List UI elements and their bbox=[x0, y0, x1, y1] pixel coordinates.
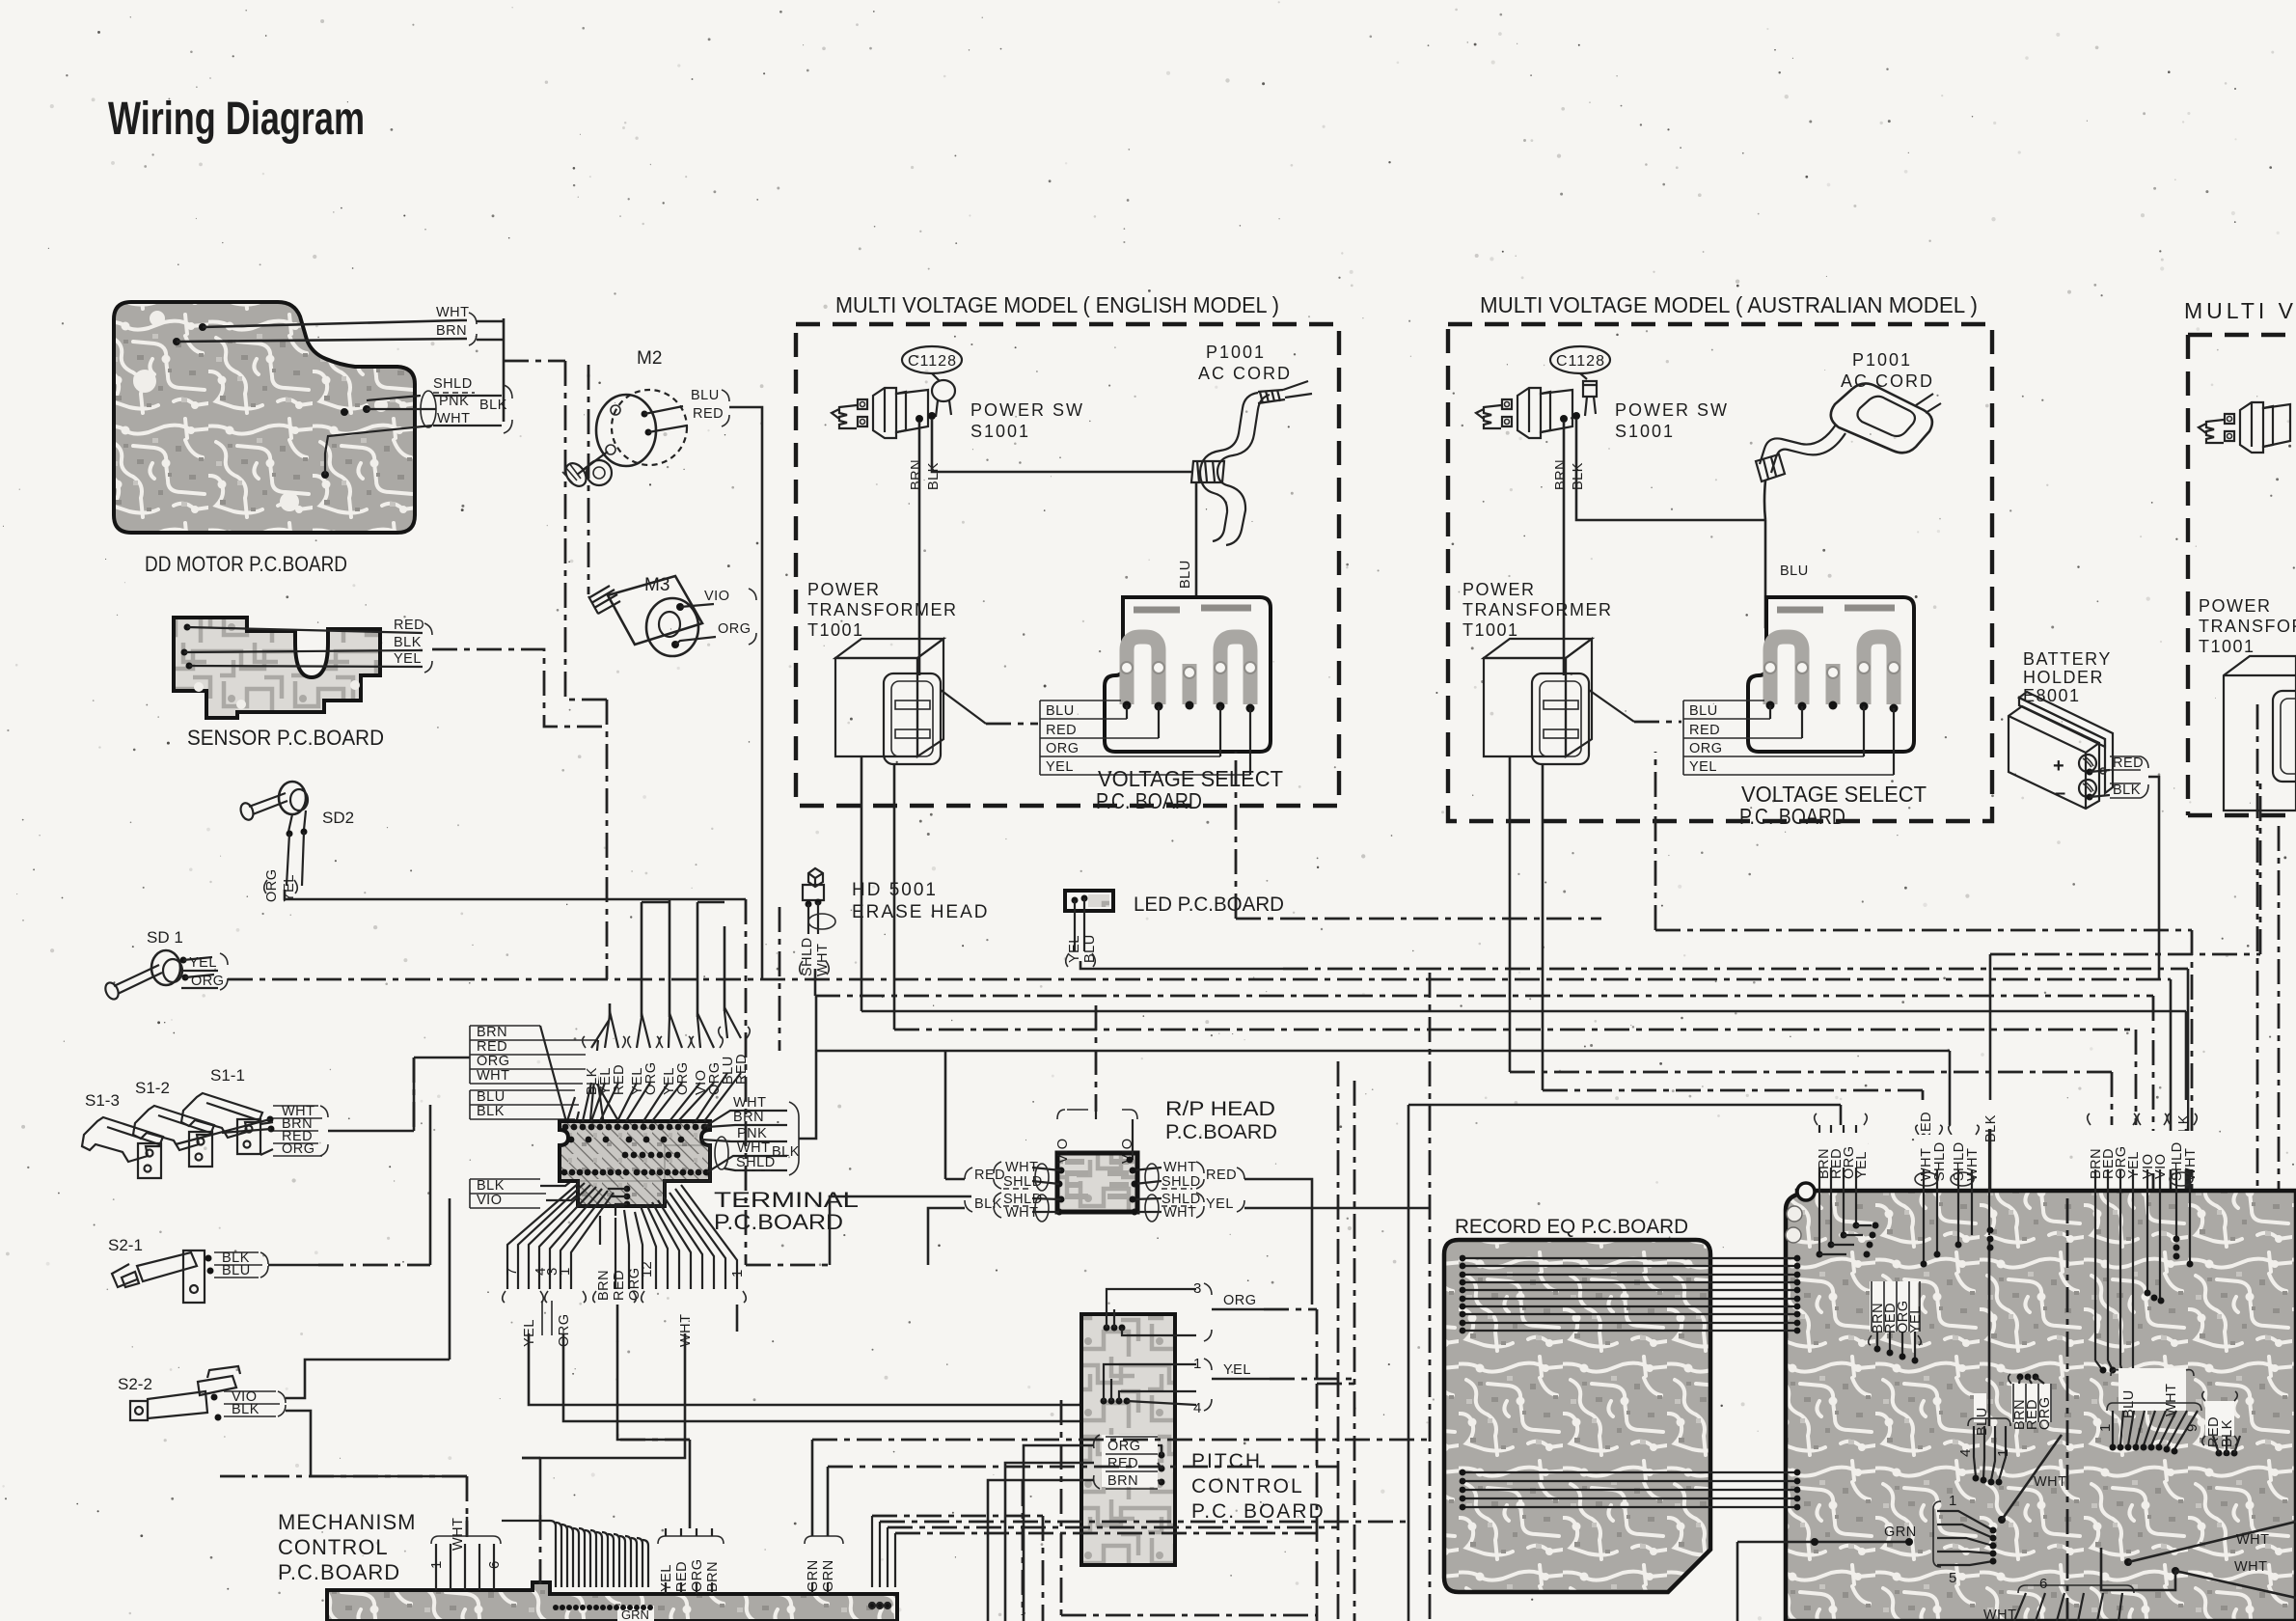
svg-text:RED: RED bbox=[1107, 1456, 1138, 1471]
svg-text:BLK: BLK bbox=[2113, 783, 2141, 798]
DD MOTOR P.C.BOARD bbox=[114, 302, 415, 533]
svg-text:SD2: SD2 bbox=[322, 809, 354, 827]
svg-text:DD MOTOR P.C.BOARD: DD MOTOR P.C.BOARD bbox=[145, 552, 347, 576]
svg-text:ORG: ORG bbox=[1046, 741, 1080, 756]
svg-text:BLK: BLK bbox=[232, 1402, 260, 1417]
svg-text:BRN: BRN bbox=[596, 1270, 612, 1301]
svg-text:RED: RED bbox=[1046, 723, 1077, 738]
svg-text:+: + bbox=[2053, 756, 2064, 777]
svg-text:P.C.BOARD: P.C.BOARD bbox=[278, 1560, 400, 1584]
record EQ wire rows bottom group bbox=[1460, 1470, 1801, 1511]
R/P head right labels bbox=[1130, 1160, 1431, 1305]
svg-text:ORG: ORG bbox=[477, 1054, 510, 1069]
wire band y1032 from erase head bbox=[815, 996, 2153, 1198]
bundle of wires into mechanism board bbox=[502, 1521, 648, 1587]
svg-text:6: 6 bbox=[486, 1561, 503, 1569]
vertical wire labels above terminal bbox=[586, 1041, 748, 1084]
svg-text:MULTI VOLTAGE MODEL ( ENGLI: MULTI VOLTAGE MODEL ( ENGLISH MODEL ) bbox=[835, 292, 1279, 317]
VOLTAGE SELECT P.C. BOARD (Australian) bbox=[1748, 597, 1914, 752]
svg-text:BLU: BLU bbox=[691, 388, 720, 403]
svg-text:BLU: BLU bbox=[222, 1263, 251, 1278]
svg-text:ORG: ORG bbox=[675, 1061, 691, 1095]
svg-text:MULTI VO: MULTI VO bbox=[2184, 298, 2296, 323]
SD2 switch bbox=[238, 782, 746, 902]
svg-text:POWER SW: POWER SW bbox=[1615, 400, 1729, 420]
vertical x2063 heavy bbox=[1989, 954, 1992, 1238]
TERMINAL P.C.BOARD bbox=[560, 1121, 710, 1206]
DD board wire BRN bbox=[173, 323, 467, 345]
BRN RED ORG label box on main board bbox=[2009, 1374, 2053, 1431]
svg-text:S1-1: S1-1 bbox=[210, 1066, 245, 1085]
BLU WHT label box and fan of 9 on main board bbox=[2097, 1368, 2201, 1455]
wires from pitch into mechanism right part bbox=[869, 1516, 895, 1608]
svg-text:BRN: BRN bbox=[1553, 459, 1569, 490]
svg-text:C1128: C1128 bbox=[1556, 353, 1605, 370]
svg-text:C1128: C1128 bbox=[908, 353, 957, 370]
svg-text:YEL: YEL bbox=[1046, 759, 1074, 775]
wire band y1130 bbox=[1543, 1090, 1923, 1125]
wire band y1089 terminal to group2 bbox=[816, 1051, 1950, 1125]
wire band y1111 australian transformer to group3 bbox=[1510, 1072, 2112, 1125]
dash-dot vertical through main board x2143 bbox=[2066, 1198, 2069, 1621]
R/P head left labels bbox=[928, 1051, 1065, 1265]
svg-text:WHT: WHT bbox=[1163, 1205, 1197, 1221]
svg-text:1: 1 bbox=[729, 1270, 746, 1278]
svg-text:T1001: T1001 bbox=[2199, 637, 2255, 656]
svg-text:RED: RED bbox=[974, 1168, 1005, 1183]
PITCH CONTROL P.C.BOARD bbox=[988, 1280, 1354, 1621]
S2-2 switch bbox=[118, 1198, 467, 1476]
label group1 BRN RED ORG YEL above main board bbox=[1813, 1113, 1879, 1258]
svg-text:BLU: BLU bbox=[1046, 703, 1075, 719]
svg-text:RED: RED bbox=[2113, 756, 2144, 771]
svg-text:P1001: P1001 bbox=[1852, 350, 1912, 370]
svg-text:WHT: WHT bbox=[733, 1095, 767, 1111]
svg-text:S2-2: S2-2 bbox=[118, 1375, 152, 1393]
svg-text:RED: RED bbox=[693, 406, 724, 422]
wire y952 english board bbox=[1236, 752, 1601, 919]
svg-text:BRN: BRN bbox=[477, 1025, 507, 1040]
main large P.C. board right bbox=[1786, 1183, 2296, 1621]
svg-text:S1001: S1001 bbox=[1615, 422, 1675, 441]
svg-text:T1001: T1001 bbox=[1462, 620, 1519, 640]
svg-text:BLK: BLK bbox=[926, 462, 942, 490]
svg-text:9: 9 bbox=[2184, 1424, 2200, 1432]
svg-text:BLK: BLK bbox=[477, 1104, 505, 1119]
elbow down from SD1 line bbox=[2170, 979, 2173, 1198]
svg-text:ORG: ORG bbox=[264, 868, 280, 902]
svg-text:E8001: E8001 bbox=[2023, 686, 2081, 705]
LED P.C.BOARD bbox=[1065, 891, 2188, 969]
svg-text:RECORD EQ P.C.BOARD: RECORD EQ P.C.BOARD bbox=[1455, 1216, 1688, 1238]
svg-text:POWER: POWER bbox=[2199, 596, 2272, 616]
label group3 BRN RED ORG YEL VIO VIO SHLD WHT above main board bbox=[2088, 1100, 2199, 1376]
svg-text:VIO: VIO bbox=[477, 1193, 502, 1208]
long horizontal wires lower area bbox=[214, 1440, 1430, 1621]
BRN RED ORG WHT ladder to terminal bbox=[470, 1025, 629, 1140]
svg-text:S1-3: S1-3 bbox=[85, 1091, 120, 1110]
svg-text:SHLD: SHLD bbox=[1162, 1174, 1201, 1190]
svg-text:VIO: VIO bbox=[704, 589, 729, 604]
svg-text:4: 4 bbox=[1193, 1400, 1201, 1416]
WHT bracket wires into mechanism board bbox=[428, 1517, 503, 1590]
svg-text:SENSOR P.C.BOARD: SENSOR P.C.BOARD bbox=[187, 726, 384, 750]
svg-text:3: 3 bbox=[1193, 1280, 1201, 1297]
svg-text:1: 1 bbox=[428, 1561, 445, 1569]
svg-text:ERASE HEAD: ERASE HEAD bbox=[852, 902, 989, 922]
vertical x773 bbox=[746, 899, 830, 1265]
MECHANISM CONTROL P.C.BOARD bbox=[278, 1510, 897, 1621]
svg-text:YEL: YEL bbox=[1854, 1151, 1870, 1179]
SD1 switch bbox=[103, 928, 2171, 1002]
svg-text:WHT: WHT bbox=[2034, 1474, 2067, 1490]
bottom fan labels 7 4 3 1 / BRN RED ORG / 12 / 1 bbox=[504, 1261, 746, 1301]
ellipse C1128 (English) bbox=[902, 346, 962, 417]
svg-text:BRN: BRN bbox=[733, 1110, 764, 1125]
GRN GRN labels into mechanism board bbox=[805, 1440, 843, 1594]
svg-text:WHT: WHT bbox=[737, 1140, 771, 1156]
svg-text:ORG: ORG bbox=[282, 1141, 315, 1157]
svg-text:WHT: WHT bbox=[437, 411, 471, 426]
svg-text:1: 1 bbox=[557, 1268, 573, 1276]
svg-text:AC CORD: AC CORD bbox=[1198, 364, 1292, 383]
power switch (third box) bbox=[2199, 402, 2290, 453]
svg-text:WHT: WHT bbox=[1983, 1607, 2017, 1621]
wire y989 right bbox=[1990, 777, 2260, 954]
R/P HEAD P.C.BOARD bbox=[1055, 1098, 1277, 1212]
svg-text:BRN: BRN bbox=[436, 323, 467, 339]
svg-text:TERMINAL: TERMINAL bbox=[714, 1188, 859, 1212]
svg-text:ORG: ORG bbox=[718, 621, 752, 637]
label group2 RED WHT SHLD / SHLD WHT BLK above main board bbox=[1915, 1100, 1999, 1268]
svg-text:7: 7 bbox=[504, 1268, 520, 1276]
motor M3 bbox=[588, 575, 756, 656]
wire band y1048 from english transformer bbox=[861, 1011, 2186, 1198]
svg-text:RED: RED bbox=[612, 1270, 627, 1301]
svg-text:1: 1 bbox=[1949, 1493, 1956, 1509]
svg-text:ORG: ORG bbox=[2037, 1396, 2053, 1430]
svg-text:PNK: PNK bbox=[737, 1126, 767, 1141]
svg-text:ORG: ORG bbox=[1223, 1293, 1257, 1308]
elbow down from LED line bbox=[2187, 969, 2190, 1198]
svg-text:P.C. BOARD: P.C. BOARD bbox=[1191, 1500, 1326, 1523]
svg-text:MECHANISM: MECHANISM bbox=[278, 1510, 416, 1534]
fan of 5 wires with bracket on main board bbox=[1933, 1493, 1997, 1586]
power switch S1001 (Australian) bbox=[1476, 388, 1580, 438]
vertical long wire x1482 bbox=[1429, 973, 1432, 1621]
dots on heavy vertical x2063 bbox=[1987, 1227, 1994, 1234]
WHT WHT diagonal wires bottom right bbox=[2101, 1522, 2296, 1598]
RED BLK labels right on main board bbox=[2202, 1391, 2240, 1457]
svg-text:–: – bbox=[2055, 783, 2065, 804]
vertical x860 to RP head labels bbox=[830, 1196, 971, 1265]
svg-text:POWER: POWER bbox=[807, 580, 881, 599]
svg-text:T1001: T1001 bbox=[807, 620, 864, 640]
terminal right labels WHT BRN PNK WHT SHLD bbox=[701, 996, 816, 1175]
svg-text:GRN: GRN bbox=[1884, 1525, 1917, 1540]
svg-text:RED: RED bbox=[1689, 723, 1720, 738]
svg-text:SHLD: SHLD bbox=[433, 376, 473, 392]
svg-text:WHT: WHT bbox=[1005, 1205, 1039, 1221]
svg-text:WHT: WHT bbox=[436, 305, 470, 320]
BATTERY HOLDER E8001 bbox=[2009, 649, 2159, 979]
svg-text:SHLD: SHLD bbox=[800, 937, 815, 976]
svg-text:WHT: WHT bbox=[451, 1517, 466, 1551]
svg-text:BLK: BLK bbox=[477, 1178, 505, 1194]
GRN wire on main board bbox=[1737, 1525, 1917, 1621]
bottom fan bracket marks bbox=[503, 1291, 747, 1303]
svg-text:BLK: BLK bbox=[1571, 462, 1586, 490]
svg-text:SD 1: SD 1 bbox=[147, 928, 183, 947]
vertical wires x1365 x1387 x1404 down bbox=[1317, 1061, 1354, 1621]
svg-text:POWER: POWER bbox=[1462, 580, 1536, 599]
POWER TRANSFORMER T1001 (English) bbox=[807, 580, 1038, 1030]
svg-text:BLK: BLK bbox=[479, 398, 507, 413]
svg-text:WHT: WHT bbox=[2236, 1532, 2270, 1548]
svg-text:MULTI VOLTAGE MODEL ( AUSTR: MULTI VOLTAGE MODEL ( AUSTRALIAN MODEL ) bbox=[1480, 292, 1978, 317]
svg-text:TRANSFORM: TRANSFORM bbox=[2199, 617, 2296, 636]
DD board wire WHT bbox=[199, 305, 470, 331]
vertical long wire x1136 from SD2-line down to R/P head bbox=[1095, 1005, 1098, 1112]
wire from DD junction to M2 area (dash-dot) bbox=[504, 361, 607, 979]
svg-text:BLK: BLK bbox=[1983, 1114, 1999, 1142]
power switch S1001 (English) bbox=[832, 388, 936, 438]
wire y964 from australian board bbox=[1655, 752, 2192, 1198]
svg-text:TRANSFORMER: TRANSFORMER bbox=[1462, 600, 1613, 619]
svg-text:P.C. BOARD: P.C. BOARD bbox=[1739, 804, 1845, 829]
svg-text:BLK: BLK bbox=[974, 1196, 1002, 1212]
svg-text:YEL: YEL bbox=[1067, 935, 1082, 963]
P1001 AC CORD (Australian) bbox=[1756, 350, 1941, 701]
dash vertical x429 S1 riser bbox=[413, 1058, 416, 1131]
SENSOR P.C.BOARD bbox=[174, 618, 380, 718]
BLU vertical label + fan of 4 on main board bbox=[1957, 1238, 2011, 1486]
svg-text:1: 1 bbox=[1193, 1356, 1201, 1372]
wire band y1067 bbox=[894, 1030, 2136, 1125]
DD board cable SHLD/PNK/WHT bbox=[321, 376, 512, 479]
svg-text:CONTROL: CONTROL bbox=[278, 1535, 389, 1559]
svg-text:S2-1: S2-1 bbox=[108, 1236, 143, 1254]
terminal pin rows bbox=[561, 1124, 710, 1208]
BLU BLK ladder to terminal bbox=[470, 1089, 579, 1140]
svg-text:SHLD: SHLD bbox=[736, 1155, 776, 1170]
BLU RED ORG YEL ladder (Australian) bbox=[1683, 701, 1894, 775]
svg-text:YEL: YEL bbox=[1689, 759, 1717, 775]
svg-text:RED: RED bbox=[477, 1039, 507, 1055]
svg-text:HOLDER: HOLDER bbox=[2023, 668, 2104, 687]
svg-text:YEL: YEL bbox=[1223, 1362, 1251, 1378]
svg-text:6: 6 bbox=[2039, 1576, 2047, 1592]
terminal bottom fan of wires bbox=[507, 1183, 737, 1289]
svg-text:ORG: ORG bbox=[1689, 741, 1723, 756]
HD5001 ERASE HEAD bbox=[800, 868, 990, 996]
wires continuing below terminal bbox=[529, 1305, 1130, 1515]
POWER TRANSFORM T1001 (third box) bbox=[2199, 596, 2296, 1191]
svg-text:BLU: BLU bbox=[1689, 703, 1718, 719]
svg-text:P.C.BOARD: P.C.BOARD bbox=[1165, 1121, 1277, 1143]
BRN BLK wires from switch (English) bbox=[909, 420, 1193, 675]
svg-text:Wiring Diagram: Wiring Diagram bbox=[108, 94, 365, 145]
svg-text:POWER SW: POWER SW bbox=[970, 400, 1084, 420]
svg-text:BRN: BRN bbox=[909, 459, 924, 490]
svg-text:WHT: WHT bbox=[477, 1068, 510, 1084]
svg-text:YEL: YEL bbox=[189, 955, 217, 971]
vertical dash-dot from M2/M3 region bbox=[588, 365, 590, 594]
BLU RED ORG YEL ladder (English) bbox=[1040, 701, 1250, 775]
svg-text:BATTERY: BATTERY bbox=[2023, 649, 2112, 669]
svg-text:BRN: BRN bbox=[1107, 1473, 1138, 1489]
P1001 AC CORD (English) bbox=[1178, 343, 1312, 701]
wires to mechanism area lower left bbox=[467, 1400, 1061, 1615]
svg-text:P.C. BOARD: P.C. BOARD bbox=[1096, 788, 1202, 813]
BRN BLK wires from switch (Australian) bbox=[1553, 420, 1765, 675]
YEL ORG labels below bbox=[522, 1301, 694, 1347]
svg-text:RED: RED bbox=[394, 618, 424, 633]
WHT diagonal wire on main board bbox=[1998, 1435, 2067, 1524]
svg-text:BLU: BLU bbox=[1780, 563, 1809, 579]
svg-text:BLK: BLK bbox=[772, 1144, 800, 1160]
wires inside main board from group1 area: BRN RED ORG YEL rotated labels on board bbox=[1869, 1281, 1924, 1364]
6 bracket fan at bottom of main board bbox=[1983, 1576, 2134, 1621]
S1-1 S1-2 S1-3 switches bbox=[82, 1058, 470, 1178]
svg-text:M2: M2 bbox=[637, 348, 662, 369]
svg-text:5: 5 bbox=[1949, 1570, 1956, 1586]
svg-text:LED P.C.BOARD: LED P.C.BOARD bbox=[1134, 893, 1284, 916]
BLK VIO ladder to terminal bbox=[470, 1166, 596, 1208]
POWER TRANSFORMER T1001 (Australian) bbox=[1462, 580, 1681, 1090]
long band wires (middle) bbox=[414, 622, 2260, 1621]
svg-text:12: 12 bbox=[639, 1261, 655, 1278]
svg-text:BLK: BLK bbox=[394, 635, 422, 650]
svg-text:BLU: BLU bbox=[477, 1089, 506, 1105]
record EQ wire rows top group bbox=[1460, 1255, 1801, 1334]
svg-text:WHT: WHT bbox=[1163, 1160, 1197, 1175]
svg-text:WHT: WHT bbox=[2234, 1559, 2268, 1575]
svg-text:4: 4 bbox=[1957, 1449, 1974, 1457]
svg-text:YEL: YEL bbox=[1908, 1305, 1924, 1333]
svg-text:YEL: YEL bbox=[1206, 1196, 1234, 1212]
YEL RED ORG BRN labels into mechanism board bbox=[658, 1440, 724, 1594]
svg-text:P.C.BOARD: P.C.BOARD bbox=[714, 1210, 843, 1234]
bracket marks above labels bbox=[583, 1027, 751, 1048]
ORG RED BRN labels on pitch board bbox=[1102, 1435, 1158, 1487]
motor M2 bbox=[561, 348, 762, 622]
wire band y1145 to group1 bbox=[1408, 1105, 1841, 1621]
svg-text:TRANSFORMER: TRANSFORMER bbox=[807, 600, 958, 619]
svg-text:RED: RED bbox=[1206, 1168, 1237, 1183]
svg-text:R/P HEAD: R/P HEAD bbox=[1165, 1098, 1275, 1120]
bracket and junction to vertical wire bbox=[469, 313, 477, 345]
ellipse C1128 (Australian) bbox=[1550, 346, 1610, 416]
svg-text:P1001: P1001 bbox=[1206, 343, 1266, 362]
riser wires from terminal up bbox=[610, 899, 724, 1019]
wires from labels into terminal top bbox=[583, 1007, 741, 1121]
svg-text:ORG: ORG bbox=[191, 974, 225, 989]
svg-text:VIO: VIO bbox=[1055, 1139, 1071, 1164]
vertical x790 bbox=[761, 622, 764, 979]
svg-text:S1001: S1001 bbox=[970, 422, 1030, 441]
VOLTAGE SELECT P.C. BOARD (English) bbox=[1105, 597, 1271, 752]
sensor wires RED BLK YEL bbox=[184, 618, 607, 727]
vertical x808 bbox=[779, 907, 781, 1051]
svg-text:BLU: BLU bbox=[1975, 1407, 1990, 1436]
svg-text:1: 1 bbox=[1995, 1449, 2011, 1457]
S2-1 switch bbox=[108, 1105, 430, 1303]
svg-text:S1-2: S1-2 bbox=[135, 1079, 170, 1097]
svg-text:YEL: YEL bbox=[394, 651, 422, 667]
svg-text:CONTROL: CONTROL bbox=[1191, 1475, 1304, 1497]
svg-text:PITCH: PITCH bbox=[1191, 1450, 1262, 1472]
svg-text:WHT: WHT bbox=[1005, 1160, 1039, 1175]
svg-text:BLU: BLU bbox=[1178, 560, 1193, 589]
svg-text:1: 1 bbox=[2097, 1424, 2114, 1432]
